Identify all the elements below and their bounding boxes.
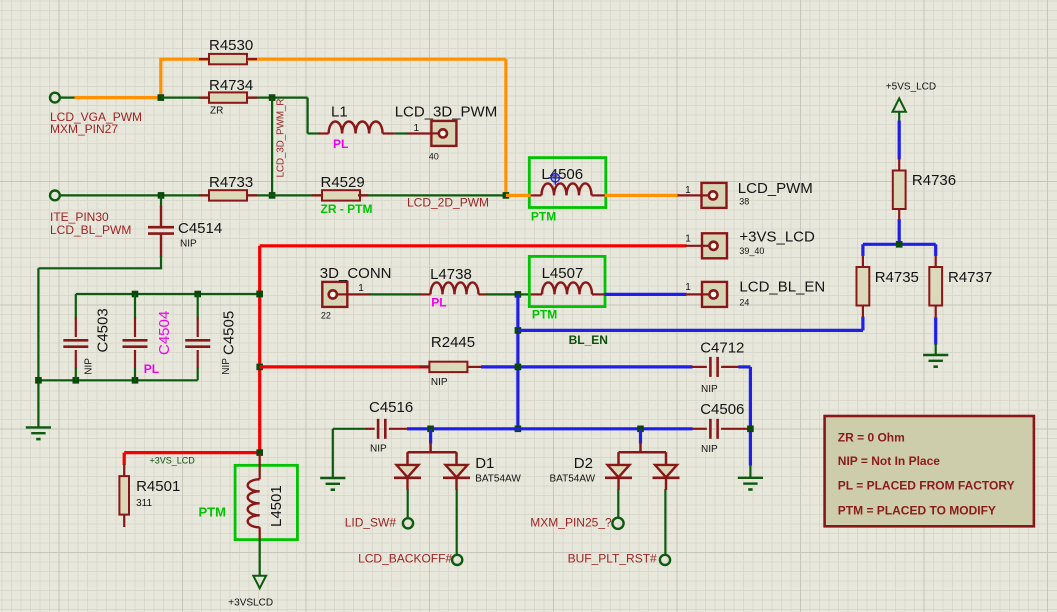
- pin: [406, 452, 409, 465]
- svg-text:NIP: NIP: [701, 384, 718, 395]
- label D2: [574, 455, 593, 472]
- value label ZR: [210, 106, 223, 117]
- svg-text:+3VSLCD: +3VSLCD: [228, 598, 273, 609]
- pin: [366, 428, 375, 430]
- pin: [617, 452, 620, 465]
- pin: [898, 159, 900, 171]
- capacitor C4514: [148, 227, 174, 233]
- label C4505 (vertical): [221, 311, 238, 355]
- svg-text:+3VS_LCD: +3VS_LCD: [739, 229, 815, 246]
- resistor R4501: [119, 476, 129, 514]
- pin number 22: [321, 310, 331, 320]
- svg-text:R4501: R4501: [136, 478, 180, 495]
- svg-text:39_40: 39_40: [739, 246, 764, 256]
- pin number 24: [739, 298, 749, 308]
- pin number 39_40: [739, 246, 764, 256]
- wire: [134, 294, 136, 319]
- svg-text:LCD_3D_PWM_R: LCD_3D_PWM_R: [276, 99, 287, 178]
- wire: [307, 98, 309, 134]
- pin: [407, 132, 432, 134]
- value label BAT54AW: [475, 473, 521, 484]
- svg-text:3D_CONN: 3D_CONN: [320, 265, 392, 282]
- node junction: [132, 291, 139, 298]
- value label NIP: [701, 444, 718, 455]
- terminal LCD_BL_EN: [702, 282, 727, 307]
- svg-text:LCD_PWM: LCD_PWM: [738, 180, 813, 197]
- wire (top rail): [76, 293, 260, 295]
- svg-text:D1: D1: [475, 455, 494, 472]
- wire: [161, 96, 209, 98]
- pin: [721, 366, 739, 368]
- value label NIP: [180, 239, 197, 250]
- resistor R4529: [322, 190, 360, 200]
- legend text ZR: [838, 431, 905, 445]
- net label LCD_BL_PWM: [50, 223, 131, 237]
- svg-text:MXM_PIN27: MXM_PIN27: [50, 122, 118, 136]
- label PTM: [199, 504, 226, 519]
- pin: [429, 443, 432, 454]
- wire: [37, 268, 39, 427]
- svg-text:NIP: NIP: [221, 358, 232, 375]
- pin number 40: [429, 152, 439, 162]
- value label ZR - PTM: [321, 202, 373, 216]
- svg-text:NIP: NIP: [431, 377, 448, 388]
- terminal LCD_PWM: [702, 183, 727, 208]
- power symbol +5VS_LCD (up arrow): [893, 98, 906, 111]
- legend text PTM: [838, 503, 996, 517]
- wire (blue stub D2): [639, 429, 642, 444]
- wire (blue stub D1): [429, 429, 432, 444]
- svg-text:BAT54AW: BAT54AW: [475, 473, 521, 484]
- origin marker (blue crosshair): [548, 171, 562, 185]
- label C4514: [178, 220, 222, 237]
- modification box (L4507): [529, 256, 605, 306]
- svg-text:PTM = PLACED TO MODIFY: PTM = PLACED TO MODIFY: [838, 503, 996, 517]
- wire: [518, 293, 531, 295]
- svg-text:1: 1: [685, 282, 691, 293]
- svg-text:R4737: R4737: [948, 269, 992, 286]
- svg-text:40: 40: [429, 152, 439, 162]
- resistor R4736: [893, 171, 906, 210]
- ground: [738, 478, 763, 490]
- pin: [247, 194, 257, 196]
- wire: [617, 489, 619, 518]
- wire (orange): [605, 194, 679, 197]
- wire (blue): [481, 365, 693, 368]
- wire (red to R4501): [124, 451, 260, 454]
- wire (blue): [861, 244, 864, 256]
- value label NIP: [370, 444, 387, 455]
- svg-text:R4735: R4735: [875, 269, 919, 286]
- svg-text:PL = PLACED FROM FACTORY: PL = PLACED FROM FACTORY: [838, 479, 1015, 493]
- wire: [487, 293, 518, 295]
- label 3D_CONN: [320, 265, 392, 282]
- pin: [134, 350, 136, 369]
- terminal MXM_PIN25_?: [612, 518, 623, 529]
- label R4529: [321, 174, 365, 191]
- label R4736: [912, 172, 956, 189]
- svg-text:1: 1: [358, 283, 364, 294]
- pin: [134, 318, 136, 338]
- svg-text:C4712: C4712: [700, 340, 744, 357]
- wire (orange, up to R4530): [159, 58, 162, 98]
- svg-text:1: 1: [685, 234, 691, 245]
- svg-text:1: 1: [685, 185, 691, 196]
- pin: [419, 366, 429, 368]
- ground: [26, 427, 51, 439]
- svg-text:PTM: PTM: [199, 504, 226, 519]
- capacitor C4516: [378, 419, 385, 439]
- svg-text:D2: D2: [574, 455, 593, 472]
- inductor L4501: [248, 479, 260, 527]
- pin: [935, 306, 937, 318]
- wire (blue): [863, 243, 936, 246]
- node junction: [194, 291, 201, 298]
- pin: [75, 350, 77, 369]
- label L4501 (vertical): [268, 485, 285, 527]
- label LCD_BL_EN: [739, 278, 825, 295]
- label PL: [144, 362, 159, 376]
- svg-text:R4736: R4736: [912, 172, 956, 189]
- legend box: [825, 416, 1034, 526]
- capacitor C4504: [123, 340, 148, 346]
- terminal 3D_CONN: [322, 282, 347, 307]
- wire: [197, 368, 199, 381]
- net label LCD_2D_PWM: [407, 196, 489, 210]
- svg-text:1: 1: [414, 123, 420, 134]
- wire (blue down): [749, 367, 752, 466]
- pin: [383, 132, 395, 134]
- net label +3VSLCD: [228, 598, 273, 609]
- label R2445: [431, 334, 475, 351]
- pin: [678, 194, 702, 196]
- label L4738: [430, 266, 472, 283]
- label R4734: [209, 77, 253, 94]
- wire: [395, 132, 407, 134]
- node junction: [747, 426, 754, 433]
- wire: [370, 293, 421, 295]
- wire (blue): [407, 427, 693, 430]
- terminal BUF_PLT_RST#: [660, 555, 670, 565]
- label D1: [475, 455, 494, 472]
- node junction: [503, 192, 510, 199]
- pin: [259, 454, 261, 479]
- net label +5VS_LCD: [886, 81, 936, 92]
- node junction: [132, 377, 139, 384]
- capacitor C4712: [710, 357, 717, 377]
- node junction: [269, 94, 276, 101]
- inductor L4738: [431, 282, 479, 294]
- terminal ITE_PIN30 (input circle): [50, 191, 60, 201]
- wire (blue): [898, 219, 901, 244]
- wire (orange, down): [504, 59, 507, 195]
- label LCD_PWM: [738, 180, 813, 197]
- pin (bracket): [408, 451, 457, 454]
- svg-text:L4506: L4506: [541, 166, 583, 183]
- svg-text:MXM_PIN25_?: MXM_PIN25_?: [530, 516, 612, 530]
- svg-text:ZR - PTM: ZR - PTM: [321, 202, 373, 216]
- wire: [308, 132, 320, 134]
- pin: [592, 293, 605, 295]
- wire (orange): [506, 194, 531, 197]
- net label MXM_PIN25_?: [530, 516, 612, 530]
- node junction: [35, 377, 42, 384]
- svg-text:38: 38: [739, 197, 749, 207]
- label +3VS_LCD: [739, 229, 815, 246]
- node junction: [256, 291, 263, 298]
- pin: [199, 58, 209, 60]
- pin: [199, 96, 209, 98]
- wire: [898, 112, 900, 122]
- svg-text:LCD_BL_EN: LCD_BL_EN: [739, 278, 825, 295]
- svg-text:ZR: ZR: [210, 106, 223, 117]
- svg-text:NIP = Not In Place: NIP = Not In Place: [838, 454, 940, 468]
- resistor R4735: [857, 267, 870, 306]
- wire (blue): [934, 317, 937, 344]
- wire (blue up to R4735): [861, 317, 864, 331]
- pin number 1: [685, 282, 691, 293]
- wire: [259, 540, 261, 576]
- svg-text:PL: PL: [431, 296, 446, 310]
- terminal LID_SW#: [403, 518, 413, 528]
- label L4506: [541, 166, 583, 183]
- svg-text:C4514: C4514: [178, 220, 222, 237]
- wire (orange): [247, 57, 506, 60]
- pin: [160, 234, 162, 257]
- svg-text:R2445: R2445: [431, 334, 475, 351]
- wire: [332, 429, 334, 478]
- wire (orange): [75, 96, 163, 99]
- pin number 1: [685, 234, 691, 245]
- pin: [123, 515, 125, 527]
- wire: [75, 294, 77, 319]
- diode D1a: [394, 465, 421, 490]
- pin: [160, 206, 162, 227]
- svg-text:LCD_BACKOFF#: LCD_BACKOFF#: [358, 552, 452, 566]
- label PL: [333, 137, 348, 151]
- label R4737: [948, 269, 992, 286]
- modification box (L4506): [529, 158, 606, 208]
- svg-text:LCD_2D_PWM: LCD_2D_PWM: [407, 196, 489, 210]
- resistor R4530: [209, 54, 247, 64]
- svg-text:BUF_PLT_RST#: BUF_PLT_RST#: [568, 552, 657, 566]
- resistor R2445: [429, 362, 467, 372]
- pin number 1: [685, 185, 691, 196]
- ground: [320, 478, 345, 490]
- node junction: [256, 449, 263, 456]
- svg-text:24: 24: [739, 298, 749, 308]
- svg-text:BAT54AW: BAT54AW: [550, 473, 596, 484]
- node junction: [896, 241, 903, 248]
- svg-text:C4503: C4503: [95, 308, 112, 352]
- pin: [467, 366, 482, 368]
- wire (red to R2445): [260, 365, 430, 368]
- label C4503 (vertical): [95, 308, 112, 352]
- value label 311: [136, 498, 152, 509]
- net label LID_SW#: [345, 516, 397, 530]
- label PL: [431, 296, 446, 310]
- label C4516: [369, 399, 413, 416]
- node junction: [158, 94, 165, 101]
- svg-text:22: 22: [321, 310, 331, 320]
- node junction: [515, 426, 522, 433]
- pin: [455, 452, 458, 465]
- wire (red +3VS horizontal): [260, 244, 687, 247]
- svg-text:ITE_PIN30: ITE_PIN30: [50, 210, 109, 224]
- label R4501: [136, 478, 180, 495]
- terminal LCD_BACKOFF#: [452, 555, 462, 565]
- svg-text:NIP: NIP: [701, 444, 718, 455]
- wire (orange): [161, 57, 209, 60]
- resistor R4734: [209, 92, 247, 102]
- label R4733: [209, 174, 253, 191]
- wire (blue): [605, 293, 687, 296]
- wire (blue): [738, 365, 750, 368]
- wire (bottom rail): [38, 379, 197, 381]
- capacitor C4503: [63, 340, 88, 346]
- wire (red down to R4501): [123, 453, 126, 465]
- svg-text:NIP: NIP: [370, 444, 387, 455]
- resistor R4733: [209, 190, 247, 200]
- svg-text:LCD_3D_PWM: LCD_3D_PWM: [395, 104, 498, 121]
- net label MXM_PIN27: [50, 122, 118, 136]
- pin: [721, 428, 749, 430]
- svg-text:311: 311: [136, 498, 152, 509]
- svg-text:LCD_BL_PWM: LCD_BL_PWM: [50, 223, 131, 237]
- svg-text:PTM: PTM: [531, 210, 556, 224]
- label L4507: [542, 265, 584, 282]
- svg-text:C4504: C4504: [156, 311, 173, 355]
- wire (vertical LCD_3D_PWM_R): [271, 98, 273, 196]
- pin: [259, 527, 261, 539]
- diode D2a: [605, 465, 632, 490]
- pin: [531, 194, 542, 196]
- capacitor C4505: [185, 340, 210, 346]
- pin: [247, 96, 257, 98]
- label C4712: [700, 340, 744, 357]
- pin: [123, 464, 125, 476]
- node junction: [427, 426, 434, 433]
- svg-text:PL: PL: [144, 362, 159, 376]
- terminal LCD_VGA_PWM (input circle): [50, 93, 60, 103]
- pin: [75, 318, 77, 338]
- legend text PL: [838, 479, 1015, 493]
- pin: [389, 428, 408, 430]
- pin: [479, 293, 488, 295]
- label C4506: [700, 401, 744, 418]
- svg-text:R4733: R4733: [209, 174, 253, 191]
- svg-text:L1: L1: [331, 104, 348, 121]
- pin: [319, 132, 329, 134]
- net label BUF_PLT_RST#: [568, 552, 657, 566]
- wire: [333, 428, 367, 430]
- svg-text:ZR = 0 Ohm: ZR = 0 Ohm: [838, 431, 905, 445]
- pin: [898, 209, 900, 221]
- value label NIP (vertical): [84, 358, 95, 375]
- wire: [247, 96, 308, 98]
- pin: [199, 194, 209, 196]
- wire: [935, 344, 937, 356]
- wire: [60, 194, 209, 196]
- wire: [60, 96, 76, 98]
- net label LCD_3D_PWM_R (vertical): [276, 99, 287, 178]
- inductor L1: [329, 122, 383, 134]
- value label BAT54AW: [550, 473, 596, 484]
- svg-text:BL_EN: BL_EN: [569, 333, 608, 347]
- pin: [592, 194, 605, 196]
- label LCD_3D_PWM: [395, 104, 498, 121]
- pin: [862, 306, 864, 318]
- pin: [358, 194, 368, 196]
- svg-text:PL: PL: [333, 137, 348, 151]
- diode D1b: [443, 465, 470, 490]
- pin number 1: [414, 123, 420, 134]
- pin: [685, 245, 702, 247]
- terminal LCD_3D_PWM: [431, 121, 456, 146]
- net label BL_EN: [569, 333, 608, 347]
- node junction: [269, 192, 276, 199]
- wire: [664, 489, 666, 555]
- svg-text:L4507: L4507: [542, 265, 584, 282]
- pin: [197, 318, 199, 338]
- ground: [923, 355, 948, 367]
- legend text NIP: [838, 454, 940, 468]
- wire (blue vertical): [516, 294, 519, 428]
- svg-text:L4501: L4501: [268, 485, 285, 527]
- pin number 1: [358, 283, 364, 294]
- diode D2b: [653, 465, 680, 490]
- wire: [160, 195, 162, 207]
- label R4735: [875, 269, 919, 286]
- node junction: [515, 327, 522, 334]
- wire: [197, 294, 199, 319]
- net label LCD_BACKOFF#: [358, 552, 452, 566]
- pin: [347, 293, 370, 295]
- pin: [692, 366, 707, 368]
- wire: [456, 489, 458, 555]
- node junction: [73, 377, 80, 384]
- pin: [665, 452, 668, 465]
- svg-text:+5VS_LCD: +5VS_LCD: [886, 81, 936, 92]
- svg-text:PTM: PTM: [532, 307, 557, 321]
- pin: [935, 255, 937, 267]
- node junction: [256, 291, 263, 298]
- svg-text:R4734: R4734: [209, 77, 253, 94]
- node junction: [515, 364, 522, 371]
- pin: [639, 443, 642, 454]
- pin: [197, 350, 199, 369]
- node junction: [515, 291, 522, 298]
- label L1: [331, 104, 348, 121]
- svg-text:NIP: NIP: [180, 239, 197, 250]
- pin: [685, 293, 702, 295]
- label C4504 (vertical): [156, 311, 173, 355]
- pin: [420, 293, 431, 295]
- pin: [247, 58, 257, 60]
- svg-text:C4506: C4506: [700, 401, 744, 418]
- wire: [75, 368, 77, 381]
- inductor L4506: [542, 183, 592, 195]
- wire (red vertical): [258, 246, 261, 454]
- label PTM: [531, 210, 556, 224]
- terminal +3VS_LCD: [702, 233, 727, 258]
- power symbol +3VSLCD (down arrow): [253, 576, 266, 589]
- svg-text:R4530: R4530: [209, 37, 253, 54]
- wire: [749, 465, 751, 478]
- svg-text:LID_SW#: LID_SW#: [345, 516, 397, 530]
- svg-text:NIP: NIP: [84, 358, 95, 375]
- resistor R4737: [929, 267, 942, 306]
